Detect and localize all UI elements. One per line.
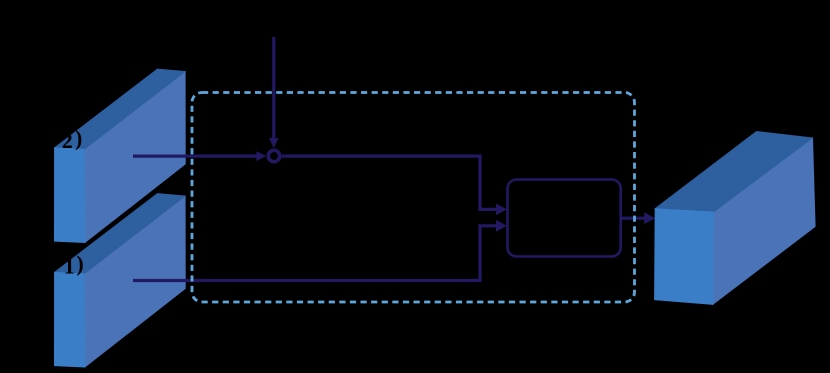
output block (right 3D box) [655,131,816,304]
wire: lower horizontal from block 1 then up into process block (lower input) [133,226,497,281]
svg-text:2): 2) [62,126,83,153]
input block 1 (lower-left 3D box) [54,194,185,368]
wire: vertical input from top [272,37,275,140]
arrowhead: right into summing node [256,151,266,161]
arrowhead: upper input into process block [496,204,507,216]
wire: upper horizontal from block 2 [133,155,257,158]
summing node (open circle) [268,150,279,161]
arrowhead: lower input into process block [496,220,507,232]
process block (rounded rectangle) [508,180,621,257]
input block 2 (upper-left 3D box) [54,69,185,243]
dashed subsystem boundary box [192,93,635,303]
arrowhead: down into summing node [269,138,279,148]
svg-text:1): 1) [64,251,84,278]
arrowhead: output into result box [644,212,655,224]
wire: output from process block [622,217,645,220]
wire: from node right then down then into process block (upper input) [282,156,497,209]
